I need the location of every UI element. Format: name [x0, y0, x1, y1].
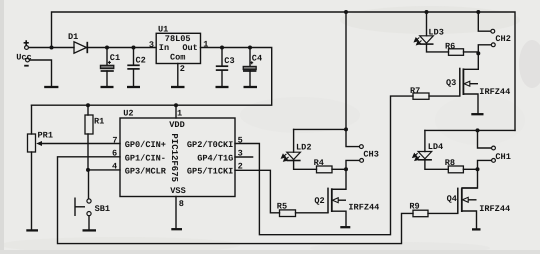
- terminal CH3 top: [360, 145, 364, 149]
- wire PR1 top: [31, 105, 33, 134]
- label C4 plus: [250, 61, 253, 64]
- svg-text:IRFZ44: IRFZ44: [479, 87, 510, 97]
- svg-text:C1: C1: [110, 53, 120, 63]
- wire LD2 leads: [294, 129, 317, 169]
- wire R5 to Q2 gate: [296, 212, 329, 214]
- wire U1 Out rail to VDD rail: [32, 48, 272, 106]
- MCU U2 box: [120, 118, 235, 197]
- wire pin2 row GP5 to R5: [235, 170, 280, 213]
- svg-text:7: 7: [112, 135, 117, 145]
- svg-text:D1: D1: [68, 32, 78, 42]
- resistor R7: [413, 93, 429, 99]
- regulator U1 box: [156, 33, 200, 63]
- wire LD3 to R6: [427, 44, 449, 52]
- svg-text:LD3: LD3: [428, 27, 443, 37]
- svg-text:IRFZ44: IRFZ44: [348, 203, 379, 213]
- capacitor C3: [216, 66, 228, 70]
- svg-text:VSS: VSS: [170, 186, 185, 196]
- LED LD4: [413, 152, 432, 161]
- svg-text:GP0/CIN+: GP0/CIN+: [125, 140, 166, 150]
- wire Ucc plus to junction: [29, 47, 75, 49]
- wire LD3 column: [426, 12, 428, 36]
- svg-text:Ucc: Ucc: [16, 52, 31, 62]
- capacitor C2: [127, 65, 139, 69]
- svg-text:GP4/T1G: GP4/T1G: [197, 153, 233, 163]
- wire R1 leads: [87, 105, 89, 170]
- wire Ucc minus down to ground: [30, 60, 52, 86]
- wire node to Q3 drain: [463, 53, 478, 69]
- wire node to Q2 drain: [332, 169, 346, 189]
- svg-text:GP3/MCLR: GP3/MCLR: [125, 167, 167, 177]
- wire pin6 row GP1 to R9: [58, 157, 414, 244]
- wire CH3 column top: [346, 12, 359, 147]
- svg-text:LD2: LD2: [296, 143, 311, 153]
- terminal Ucc plus: [25, 46, 29, 50]
- svg-text:CH2: CH2: [495, 34, 510, 44]
- terminal CH3 bottom: [360, 159, 364, 163]
- terminal CH1 bottom: [492, 159, 496, 163]
- svg-text:U1: U1: [158, 24, 168, 34]
- resistor R9: [413, 210, 428, 217]
- wire CH2 top pin: [478, 12, 491, 31]
- svg-text:R5: R5: [277, 202, 287, 212]
- svg-text:Out: Out: [182, 43, 197, 53]
- wire C4 leads: [249, 48, 251, 87]
- svg-text:In: In: [159, 43, 169, 53]
- svg-text:Com: Com: [170, 53, 185, 63]
- ground Q3: [471, 113, 483, 115]
- svg-text:GP2/T0CKI: GP2/T0CKI: [187, 140, 233, 150]
- svg-text:R6: R6: [445, 41, 455, 51]
- svg-text:R9: R9: [409, 201, 419, 211]
- ground U2 VSS: [171, 228, 182, 230]
- wire LD4 leads: [425, 130, 448, 169]
- svg-text:4: 4: [112, 162, 117, 172]
- svg-text:R1: R1: [94, 117, 104, 127]
- svg-text:3: 3: [238, 149, 243, 159]
- capacitor C1 (polarized): [100, 65, 114, 71]
- ground Ucc minus: [44, 86, 58, 88]
- svg-text:CH3: CH3: [363, 150, 378, 160]
- svg-text:R8: R8: [445, 158, 455, 168]
- LED LD2: [282, 152, 301, 161]
- ground C1: [101, 86, 114, 88]
- wire pin4 row GP3/MCLR: [88, 169, 120, 171]
- svg-text:Q2: Q2: [314, 196, 324, 206]
- svg-text:Q3: Q3: [446, 78, 456, 88]
- wire LD2 feed row: [294, 128, 346, 130]
- svg-text:CH1: CH1: [495, 152, 510, 162]
- terminal CH1 top: [492, 146, 496, 150]
- transistor Q4: [458, 188, 478, 214]
- wire D1 cathode to U1 In: [88, 47, 156, 49]
- svg-text:PR1: PR1: [38, 131, 53, 141]
- resistor R5: [280, 210, 296, 217]
- wire R7 to Q3 gate: [429, 95, 460, 97]
- capacitor C4 (polarized): [243, 66, 256, 71]
- potentiometer PR1: [28, 134, 43, 152]
- wire pin3 stub GP4: [235, 156, 253, 158]
- terminal Ucc minus: [26, 58, 30, 62]
- resistor R4: [317, 166, 333, 173]
- transistor Q2: [328, 188, 346, 213]
- wire Q3 source to ground: [463, 94, 478, 113]
- svg-text:Q4: Q4: [447, 194, 457, 204]
- svg-text:VDD: VDD: [169, 120, 184, 130]
- wire CH2 bottom pin to node: [478, 45, 491, 54]
- ground SB1: [83, 229, 97, 231]
- terminal CH2 bottom: [491, 43, 495, 47]
- ground C4: [244, 86, 258, 88]
- terminal CH2 top: [491, 29, 495, 33]
- svg-text:1: 1: [177, 109, 182, 119]
- svg-text:8: 8: [179, 199, 184, 209]
- wire CH1 top pin: [478, 130, 492, 148]
- svg-text:R7: R7: [410, 86, 420, 96]
- label C1 plus: [108, 61, 111, 64]
- svg-text:2: 2: [180, 64, 185, 74]
- wire CH1 bottom pin to node: [478, 160, 492, 169]
- svg-text:C2: C2: [136, 56, 146, 66]
- transistor Q3: [460, 68, 478, 96]
- ground Q4: [472, 228, 481, 230]
- svg-text:LD4: LD4: [428, 142, 443, 152]
- wire LD4 feed row: [425, 129, 515, 131]
- svg-text:C4: C4: [252, 54, 262, 64]
- wire U2 VDD pin: [175, 105, 177, 118]
- svg-text:2: 2: [238, 162, 243, 172]
- svg-text:6: 6: [112, 149, 117, 159]
- wire CH3 bottom pin to node: [346, 160, 360, 169]
- wire R4 to node: [332, 168, 346, 170]
- svg-text:U2: U2: [123, 108, 133, 118]
- wire PR1 bottom to ground: [31, 152, 33, 230]
- LED LD3: [415, 36, 434, 45]
- wire pin5 row GP2 to R7: [235, 96, 413, 235]
- ground C3: [216, 86, 229, 88]
- label plus: [24, 40, 29, 45]
- svg-text:5: 5: [238, 135, 243, 145]
- svg-text:GP5/T1CKI: GP5/T1CKI: [187, 167, 233, 177]
- wire pin7 row PR1 wiper: [40, 143, 120, 145]
- ground U1 Com: [171, 86, 185, 88]
- wire C1 leads: [106, 48, 108, 87]
- wire U1 pin2 to ground: [177, 64, 179, 87]
- svg-text:1: 1: [203, 40, 208, 50]
- wire SB1 leads: [88, 170, 91, 230]
- wire U2 VSS pin to ground: [175, 197, 177, 229]
- wire top rail: [52, 12, 516, 130]
- wire R8 to node: [463, 168, 477, 170]
- wire R6 to node: [464, 51, 479, 53]
- wire Q4 source to ground: [462, 211, 477, 229]
- svg-text:PIC12F675: PIC12F675: [169, 133, 179, 182]
- svg-text:IRFZ44: IRFZ44: [479, 204, 510, 214]
- wire node to Q4 drain: [462, 169, 478, 188]
- svg-text:R4: R4: [314, 158, 324, 168]
- wire C3 leads: [221, 48, 223, 87]
- resistor R6: [449, 49, 464, 56]
- node junction dots: [50, 10, 481, 172]
- svg-text:SB1: SB1: [95, 204, 110, 214]
- resistor R8: [448, 166, 463, 173]
- label minus: [24, 65, 29, 67]
- ground PR1: [26, 229, 38, 231]
- diode D1: [74, 42, 87, 53]
- pushbutton SB1: [75, 198, 91, 217]
- svg-text:3: 3: [149, 40, 154, 50]
- ground C2: [127, 86, 140, 88]
- svg-text:C3: C3: [224, 56, 234, 66]
- resistor R1: [85, 115, 93, 134]
- wire R9 to Q4 gate: [428, 212, 458, 214]
- svg-text:GP1/CIN-: GP1/CIN-: [125, 153, 166, 163]
- wire C2 leads: [133, 48, 135, 87]
- ground Q2: [340, 226, 350, 228]
- wire Q2 source to ground: [332, 211, 346, 226]
